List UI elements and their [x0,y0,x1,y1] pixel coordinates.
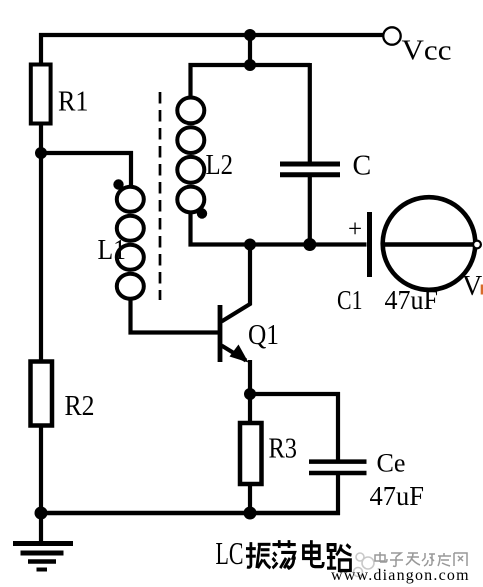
watermark logo ghost [354,553,375,577]
wire collector vertical [222,245,251,322]
wire speaker diameter line [381,242,473,247]
terminal Vo [473,241,481,249]
svg-text:www.diangon.com: www.diangon.com [331,567,470,584]
wire L1 bottom lead to base [131,299,219,333]
wire L2 bottom lead [191,212,367,245]
label 振 (title char) [246,542,271,568]
svg-text:Q1: Q1 [248,319,279,351]
wire base branch horizontal [41,151,133,155]
phase dot L2 [197,208,207,218]
wire C top lead [308,63,312,162]
svg-text:L1: L1 [98,234,127,266]
node R3 bottom junction [244,507,257,520]
svg-text:+: + [348,216,362,243]
wire Ce bottom lead [336,474,340,515]
svg-text:R3: R3 [269,433,298,465]
inductor L1 [117,187,144,299]
svg-text:C: C [353,151,372,182]
inductor L2 [177,98,204,213]
wire emitter vertical [248,360,252,394]
svg-text:C1: C1 [337,285,363,315]
wire rail tap vertical [248,35,252,65]
ground [13,544,73,570]
node collector junction [244,239,256,251]
node ground junction [35,507,48,520]
speaker output circle [383,197,476,290]
capacitor Ce [309,462,367,473]
wire R3 bottom lead [248,484,252,513]
node R1 bottom junction [35,147,47,159]
wire bottom rail [41,511,340,516]
label 电 (title char) [303,540,323,566]
wire L2 top lead [191,65,311,96]
terminal Vcc [383,27,400,44]
wire Ce top lead [336,392,340,462]
wire emitter to R3 [248,394,252,425]
label 荡 (title char) [272,540,295,568]
transistor Q1 emitter diagonal [222,346,247,361]
svg-text:Vcc: Vcc [402,35,452,67]
transformer core dashed line [159,92,162,300]
wire top rail [39,33,383,37]
svg-text:LC: LC [216,535,244,571]
svg-text:Ce: Ce [377,449,406,478]
resistor R3 [240,423,262,484]
wire L1 top lead [129,151,133,188]
resistor R2 [31,362,53,426]
svg-text:R1: R1 [58,86,89,118]
wire C bottom lead [308,176,312,245]
svg-text:R2: R2 [65,390,95,422]
resistor R1 [31,65,51,124]
transistor Q1 base bar [218,305,223,362]
capacitor C [280,164,340,175]
svg-text:V: V [462,271,482,302]
node link junction [244,59,256,71]
transistor Q1 emitter arrowhead [230,345,249,363]
wire left vertical rail [39,33,43,543]
node emitter junction [244,388,256,400]
node top rail tap [244,29,256,41]
svg-text:47uF: 47uF [370,481,425,511]
phase dot L1 [113,179,123,189]
capacitor C1 plate [367,212,372,277]
label 路 (title char) [327,545,351,571]
label Vo colored sliver [481,285,483,295]
node C bottom junction [303,238,316,251]
wire Ce branch horizontal [250,392,340,396]
svg-text:L2: L2 [206,149,234,181]
watermark 电子发烧友网 [375,552,467,566]
